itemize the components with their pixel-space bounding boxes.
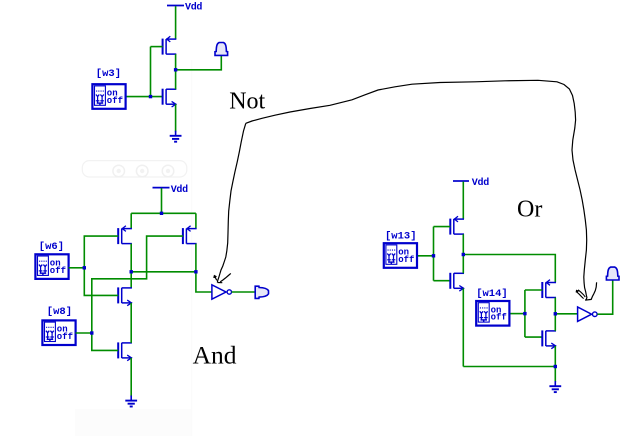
node input w13 junction (Or) — [432, 254, 435, 257]
svg-text:off: off — [398, 255, 414, 265]
switch w8 — [42, 306, 75, 345]
wire switch w3 to NMOS gate (Not) — [126, 96, 163, 98]
wire NAND output rail (And) — [131, 271, 196, 273]
wire NMOS2 source to rail (Or) — [554, 346, 556, 367]
svg-text:Vdd: Vdd — [171, 184, 188, 196]
wire w14 node to NMOS gate (Or) — [525, 336, 542, 338]
wire w13 node vertical (Or) — [433, 227, 435, 281]
wire NMOS A source to NMOS B drain (And) — [130, 303, 132, 343]
wire Vdd drop (And) — [161, 188, 163, 213]
wire switch w13 to node (Or) — [417, 255, 433, 257]
wire PMOS1 drain to NMOS drain (Or) — [462, 234, 464, 273]
freehand arrow line to Or inverter — [246, 80, 587, 295]
transistor Q2 NMOS (Not) — [163, 89, 177, 107]
wire node B down to NMOS B gate (And) — [92, 333, 118, 350]
svg-text:[w8]: [w8] — [47, 306, 72, 318]
wire rail to PMOS B source (And) — [195, 213, 197, 228]
svg-text:Vdd: Vdd — [472, 177, 489, 189]
wire switch w6 to node A (And) — [69, 267, 85, 269]
node input A junction (And) — [83, 266, 86, 269]
label Or — [517, 196, 542, 222]
inverter U2 (Or output) — [578, 307, 598, 321]
wire switch w8 to node B (And) — [76, 332, 92, 334]
wire switch w14 to node (Or) — [510, 313, 525, 315]
wire input node vertical (Not) — [151, 46, 163, 48]
ground (Or) — [549, 381, 561, 392]
wire NMOS1 source down (Or) — [462, 288, 464, 366]
power symbol Vdd (Not gate) — [167, 2, 202, 14]
transistor Q10 NMOS input B (Or) — [542, 330, 556, 348]
node output junction (Or) — [554, 312, 557, 315]
wire PMOS B drain down (And) — [195, 244, 197, 272]
label Not — [229, 89, 265, 115]
wire Vdd to PMOS source (Not) — [175, 6, 177, 39]
wire output to probe (Not) — [176, 56, 222, 70]
node output junction (Not) — [174, 68, 177, 71]
wire gate link down (Not) — [150, 47, 152, 97]
svg-text:[w14]: [w14] — [476, 288, 508, 300]
wire rail to ground (Or) — [554, 367, 556, 383]
node series mid junction (Or) — [462, 253, 465, 256]
svg-text:Vdd: Vdd — [185, 2, 202, 14]
svg-text:off: off — [50, 266, 66, 276]
wire PMOS drain to NMOS drain (Not) — [175, 54, 177, 89]
svg-text:And: And — [193, 341, 237, 370]
power symbol Vdd (Or gate) — [453, 177, 489, 189]
transistor Q9 PMOS input B (Or) — [542, 280, 556, 298]
transistor Q3 PMOS input A (And) — [118, 226, 132, 244]
freehand arrowhead at And inverter — [213, 273, 231, 282]
wire inverter to probe (And) — [232, 291, 256, 293]
switch w13 — [384, 230, 417, 267]
wire PMOS1 gate link (Or) — [434, 226, 451, 228]
wire NMOS source to ground (Not) — [175, 104, 177, 131]
wire PMOS2 gate link (Or) — [525, 289, 542, 291]
ground (Not) — [170, 131, 182, 142]
wire rail to PMOS A source (And) — [130, 213, 132, 228]
node Vdd rail junction (And) — [160, 212, 163, 215]
wire node A up to PMOS A gate (And) — [84, 236, 118, 268]
svg-text:Not: Not — [229, 89, 265, 115]
wire ground rail (Or) — [463, 366, 555, 368]
wire mid node across (Or) — [463, 255, 555, 283]
transistor Q7 PMOS input A (Or) — [450, 216, 464, 234]
transistor Q1 PMOS (Not) — [163, 36, 177, 54]
inverter U1 (And output) — [212, 285, 232, 299]
wire inverter to probe (Or) — [597, 280, 612, 314]
transistor Q5 NMOS input A (And) — [118, 287, 132, 305]
wire node A down to NMOS A gate (And) — [84, 268, 118, 296]
probe output (Not) — [215, 43, 228, 56]
freehand arrowhead at Or inverter — [576, 282, 597, 300]
power symbol Vdd (And gate) — [153, 184, 189, 196]
wire NMOS B source to ground (And) — [130, 358, 132, 397]
switch w14 — [476, 288, 509, 326]
wire w14 node vertical (Or) — [524, 290, 526, 337]
transistor Q6 NMOS input B (And) — [118, 342, 132, 360]
freehand arrow line to And inverter — [217, 123, 245, 282]
probe output (Or) — [606, 267, 619, 280]
svg-text:off: off — [57, 332, 73, 342]
wire w13 node to NMOS gate (Or) — [434, 280, 451, 282]
svg-text:[w3]: [w3] — [96, 68, 121, 80]
wire output to inverter (Or) — [555, 313, 577, 315]
wire node B up to PMOS B gate (And) — [92, 236, 183, 333]
node input junction (Not) — [149, 95, 152, 98]
node input w14 junction (Or) — [523, 312, 526, 315]
switch w6 — [35, 241, 68, 279]
switch w3 — [92, 68, 125, 109]
wire PMOS A drain down (And) — [130, 244, 132, 288]
transistor Q8 NMOS input A (Or) — [450, 273, 464, 291]
node ground rail junction (Or) — [554, 365, 557, 368]
svg-text:[w13]: [w13] — [385, 230, 417, 242]
wire Vdd to PMOS1 source (Or) — [462, 182, 464, 219]
node NAND out right junction (And) — [194, 270, 197, 273]
svg-text:off: off — [107, 96, 123, 106]
faint window edge artifacts — [75, 60, 192, 436]
wire Vdd rail (And) — [131, 212, 196, 214]
label And — [193, 341, 237, 370]
wire PMOS2 drain to NMOS2 drain (Or) — [554, 298, 556, 331]
svg-text:Or: Or — [517, 196, 542, 222]
probe output (And) — [255, 286, 268, 298]
node input B junction (And) — [90, 331, 93, 334]
svg-text:[w6]: [w6] — [39, 241, 64, 253]
ground (And) — [125, 396, 137, 407]
transistor Q4 PMOS input B (And) — [183, 226, 197, 244]
node NAND out left junction (And) — [130, 270, 133, 273]
wire NAND out to inverter (And) — [196, 272, 212, 292]
svg-text:off: off — [491, 313, 507, 323]
